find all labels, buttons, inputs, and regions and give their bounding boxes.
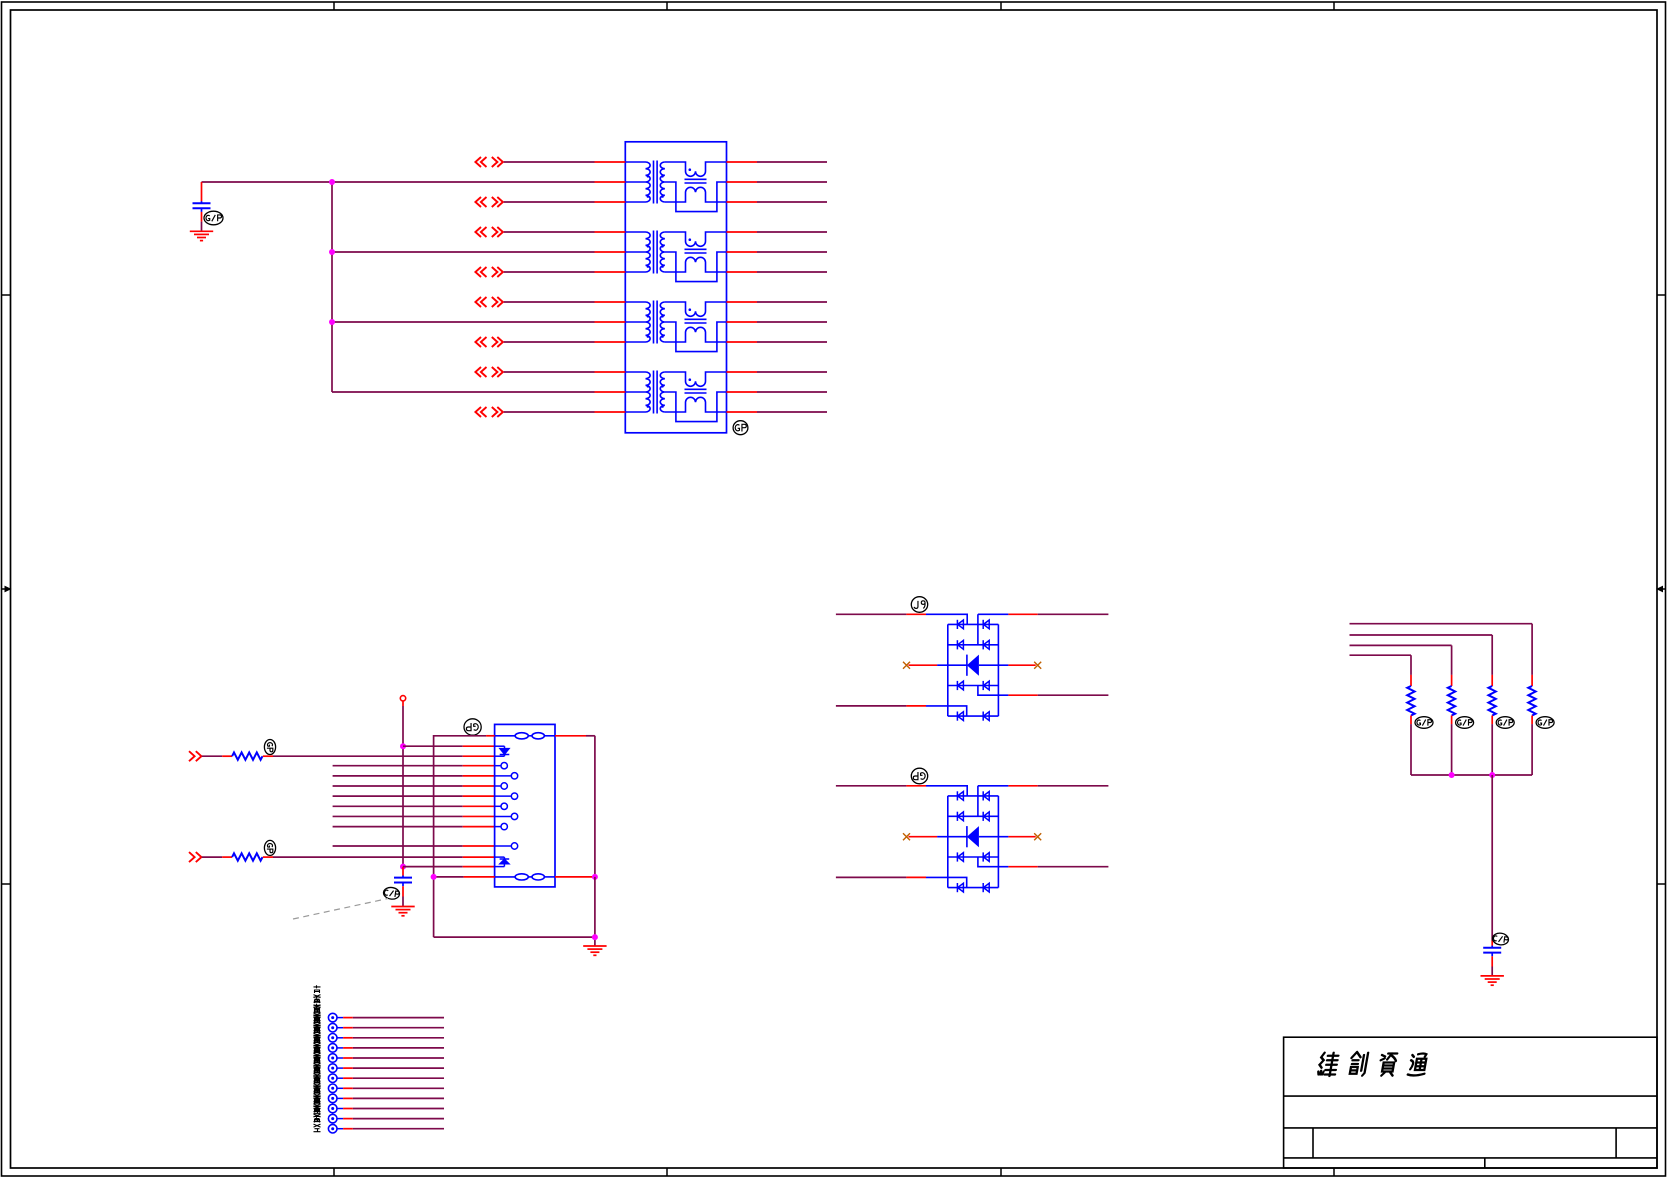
wire output unit4 y=392	[727, 391, 758, 393]
header pin 1	[328, 1013, 337, 1022]
wire header pin 12	[337, 1128, 343, 1130]
wire header pin 9	[337, 1097, 343, 1099]
header pin 9 net label	[314, 1066, 321, 1101]
wire centre tap bus vertical	[331, 182, 333, 392]
wire output unit4 y=412	[727, 411, 758, 413]
wire connector signal 4	[333, 795, 463, 797]
resistor R1	[232, 752, 262, 759]
wire centre tap branch y=392	[332, 391, 595, 393]
magnetics module box T1	[625, 142, 726, 433]
wire feed to resistor R5	[1350, 634, 1493, 636]
wire header pin 6	[337, 1067, 343, 1069]
capacitor C3 lead bottom	[1491, 956, 1493, 966]
resistor R4	[1448, 686, 1455, 716]
header pin 7 net label	[314, 1046, 321, 1081]
capacitor C1 lead top	[201, 182, 203, 201]
port marker >> input 2	[189, 852, 195, 862]
wire output unit2 y=232	[727, 231, 758, 233]
wire resistor R5 bottom	[1491, 716, 1493, 725]
wire input unit2 line3	[504, 271, 595, 273]
resistor R6	[1528, 686, 1535, 716]
wire resistor R1 to connector	[263, 755, 273, 757]
capacitor C1 label GP	[204, 211, 223, 225]
ground symbol at connector	[583, 946, 606, 955]
port marker <<>> unit3 line3	[475, 337, 481, 347]
no-connect circle on bus	[400, 696, 405, 701]
junction dots resistor bus	[1449, 772, 1455, 778]
connector J1 pin circle 2	[495, 775, 512, 777]
capacitor C2 lead top	[402, 867, 404, 876]
resistor R6 label GP	[1536, 717, 1554, 729]
border zone ticks top	[334, 2, 1334, 10]
wire input unit2 line1	[504, 231, 595, 233]
wire input unit1 line3	[504, 201, 595, 203]
wire header pin 11	[337, 1118, 343, 1120]
transformer T1 unit 4	[625, 371, 726, 422]
connector J1 LED pad ovals top	[495, 733, 555, 739]
port marker <<>> unit4 line1	[475, 367, 481, 377]
border zone ticks right	[1657, 295, 1666, 884]
wire output unit4 y=372	[727, 371, 758, 373]
header pin 10 net label	[314, 1076, 321, 1111]
ground symbol at C2	[391, 907, 414, 916]
header pin 7	[328, 1074, 337, 1083]
capacitor C2 lead bottom	[402, 886, 404, 896]
header pin 6	[328, 1064, 337, 1073]
diode array module D3	[836, 614, 1109, 720]
header pin 1 net label	[314, 985, 321, 1020]
border centre arrow right	[1656, 586, 1666, 593]
title text company name	[1318, 1052, 1428, 1076]
wire output unit3 y=302	[727, 301, 758, 303]
diode array module D3 label J9	[911, 597, 927, 613]
wire connector signal 2	[333, 775, 463, 777]
port marker <<>> unit4 line3	[475, 407, 481, 417]
transformer T1 unit 3	[625, 301, 726, 352]
connector J1 pin circle 5	[495, 805, 501, 807]
resistor R3	[1407, 686, 1414, 716]
header pin 12 net label	[314, 1096, 321, 1131]
resistor R3 label GP	[1415, 717, 1433, 729]
wire resistor R3 bottom	[1410, 716, 1412, 725]
connector J1 pin circle 4	[495, 795, 512, 797]
header pin 6 net label	[314, 1036, 321, 1071]
border centre arrow left	[2, 586, 12, 593]
header pin 12	[328, 1124, 337, 1133]
capacitor C3	[1483, 946, 1501, 957]
wire LED bottom right	[555, 876, 594, 878]
wire connector signal 7	[333, 826, 463, 828]
connector J1 label GP (rotated)	[464, 719, 481, 735]
wire ground rail bottom	[434, 936, 595, 938]
wire header pin 1	[337, 1017, 343, 1019]
header pin 8 net label	[314, 1056, 321, 1091]
header pin 4 net label	[314, 1016, 321, 1051]
wire input unit3 line3	[504, 341, 595, 343]
wire resistor R2 to connector	[263, 856, 273, 858]
junction dot LED bottom right	[592, 874, 598, 880]
junction dot ground rail	[592, 934, 598, 940]
diode D1 in connector (top)	[495, 746, 510, 756]
wire vertical bus J1	[402, 701, 404, 706]
wire connector signal 8	[333, 845, 463, 847]
diode array module D4	[836, 786, 1109, 892]
wire output unit2 y=252	[727, 251, 758, 253]
magnetics module label GP	[733, 421, 748, 435]
capacitor C1 lead bottom	[201, 212, 203, 222]
port marker <<>> unit1 line3	[475, 197, 481, 207]
port marker <<>> unit1 line1	[475, 157, 481, 167]
wire header pin 2	[337, 1027, 343, 1029]
resistor R1 label	[264, 740, 275, 755]
junction dot bus lower	[400, 864, 406, 870]
resistor R5	[1488, 686, 1495, 716]
diode D2 in connector (bottom)	[495, 857, 510, 867]
wire header pin 5	[337, 1057, 343, 1059]
title block frame	[1284, 1037, 1657, 1168]
ground symbol at C1	[190, 231, 213, 240]
wire input unit1 line1	[504, 161, 595, 163]
header pin 11	[328, 1114, 337, 1123]
wire resistor R4 bottom	[1451, 716, 1453, 725]
header pin 11 net label	[314, 1086, 321, 1121]
junction dot bus upper	[400, 743, 406, 749]
junction dots on centre bus	[329, 179, 335, 185]
header pin 2	[328, 1023, 337, 1032]
connector J1 pin circle 6	[495, 815, 512, 817]
wire output unit1 y=202	[727, 201, 758, 203]
wire header pin 3	[337, 1037, 343, 1039]
port marker >> input 1	[189, 751, 195, 761]
junction dot LED bottom left	[431, 874, 437, 880]
wire centre tap unit1	[202, 181, 595, 183]
wire input 1	[202, 755, 222, 757]
wire input 2	[202, 856, 222, 858]
wire resistor bottom bus	[1411, 774, 1532, 776]
wire connector signal 3	[333, 785, 463, 787]
border zone ticks left	[2, 295, 11, 884]
connector J1 pin circle 3	[495, 785, 501, 787]
wire centre tap branch y=322	[332, 321, 595, 323]
wire output unit1 y=182	[727, 181, 758, 183]
header pin 2 net label	[314, 995, 321, 1030]
connector J1 pin circle 7	[495, 826, 501, 828]
wire input unit4 line1	[504, 371, 595, 373]
port marker <<>> unit2 line1	[475, 227, 481, 237]
header pin 8	[328, 1084, 337, 1093]
diode array module D4 label GP (rotated)	[911, 768, 927, 784]
wire input unit4 line3	[504, 411, 595, 413]
wire header pin 7	[337, 1077, 343, 1079]
connector J1 pin circle 8	[495, 845, 512, 847]
wire connector signal 1	[333, 765, 463, 767]
header pin 5 net label	[314, 1026, 321, 1061]
wire centre tap branch y=252	[332, 251, 595, 253]
resistor R2 label	[264, 840, 275, 855]
wire bus to capacitor C3	[1491, 775, 1493, 941]
resistor R2	[232, 853, 262, 860]
wire bus to connector pin row A	[403, 745, 463, 747]
wire feed to resistor R3	[1350, 654, 1412, 656]
header pin 3	[328, 1034, 337, 1043]
ground symbol at C3	[1481, 976, 1504, 985]
connector J1 body	[495, 724, 555, 887]
wire header pin 8	[337, 1087, 343, 1089]
wire bus to connector pin row B	[403, 866, 463, 868]
header pin 10	[328, 1104, 337, 1113]
wire output unit2 y=272	[727, 271, 758, 273]
wire feed to resistor R6	[1350, 623, 1533, 625]
connector J1 LED pad ovals bottom	[495, 874, 555, 880]
wire feed to resistor R4	[1350, 644, 1452, 646]
port marker <<>> unit3 line1	[475, 297, 481, 307]
wire header pin 4	[337, 1047, 343, 1049]
capacitor C2	[394, 876, 412, 887]
transformer T1 unit 1	[625, 161, 726, 212]
wire LED top left loop	[434, 736, 487, 937]
header pin 5	[328, 1054, 337, 1063]
wire output unit1 y=162	[727, 161, 758, 163]
wire output unit3 y=322	[727, 321, 758, 323]
resistor R5 label GP	[1496, 717, 1514, 729]
transformer T1 unit 2	[625, 231, 726, 282]
header pin 3 net label	[314, 1005, 321, 1040]
wire input unit3 line1	[504, 301, 595, 303]
header pin 4	[328, 1044, 337, 1053]
border zone ticks bottom	[334, 1168, 1334, 1176]
wire LED bottom left	[434, 876, 464, 878]
wire LED top right	[555, 735, 586, 737]
wire header pin 10	[337, 1108, 343, 1110]
capacitor C3 label	[1492, 932, 1509, 946]
capacitor C1	[193, 201, 211, 212]
wire connector signal 5	[333, 805, 463, 807]
capacitor C2 label	[383, 886, 400, 900]
header pin 9	[328, 1094, 337, 1103]
wire output unit3 y=342	[727, 341, 758, 343]
wire connector signal 6	[333, 815, 463, 817]
resistor R4 label GP	[1456, 717, 1474, 729]
wire resistor R6 bottom	[1531, 716, 1533, 725]
dashed annotation leader line	[293, 899, 388, 920]
port marker <<>> unit2 line3	[475, 267, 481, 277]
connector J1 pin circle 1	[495, 765, 501, 767]
